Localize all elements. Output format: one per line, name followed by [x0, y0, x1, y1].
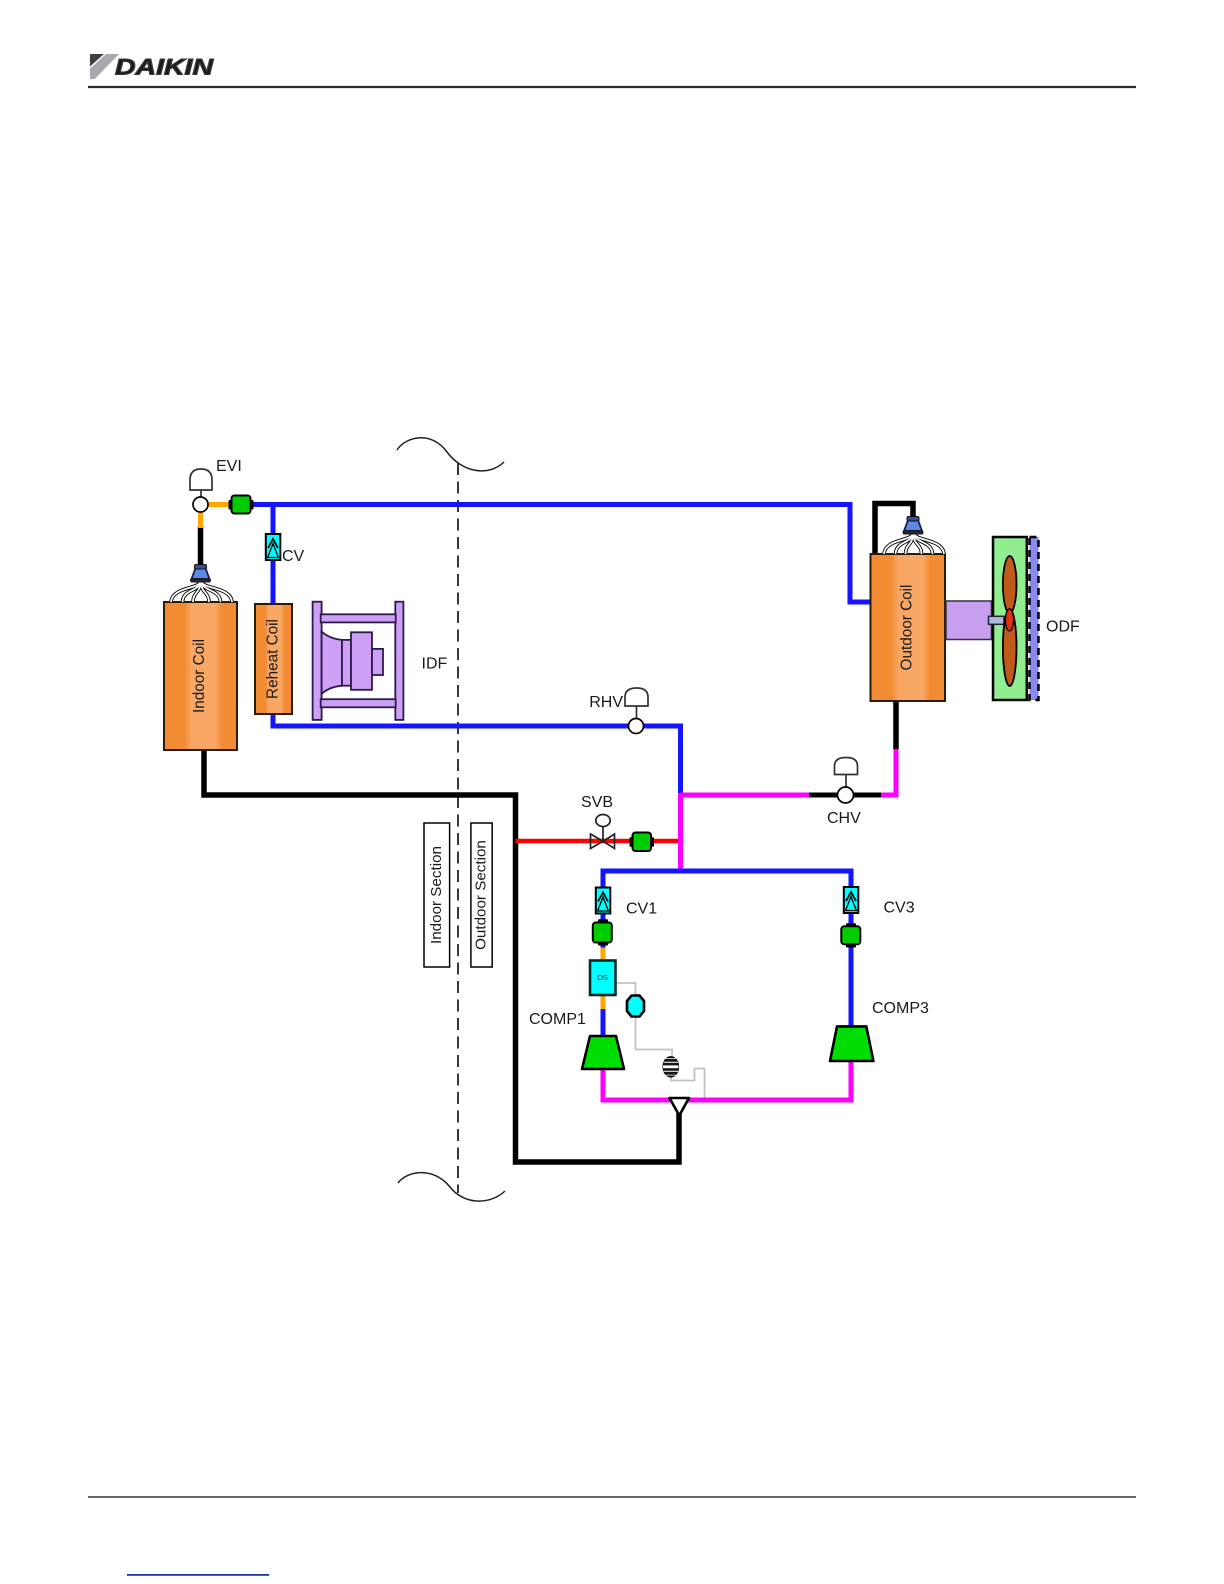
svg-text:DAIKIN: DAIKIN [115, 55, 214, 80]
svg-text:CV: CV [282, 548, 305, 565]
svg-text:Reheat Coil: Reheat Coil [265, 619, 282, 699]
svg-text:RHV: RHV [589, 694, 623, 711]
svg-text:Outdoor Coil: Outdoor Coil [899, 585, 916, 671]
svg-text:CHV: CHV [827, 810, 861, 827]
svg-text:COMP1: COMP1 [529, 1011, 586, 1028]
svg-text:Indoor Section: Indoor Section [428, 846, 445, 944]
svg-text:CV1: CV1 [626, 901, 657, 918]
svg-text:OS: OS [597, 973, 608, 982]
svg-text:Outdoor Section: Outdoor Section [473, 840, 490, 950]
svg-text:EVI: EVI [216, 458, 242, 475]
svg-text:ODF: ODF [1046, 619, 1080, 636]
svg-text:Indoor Coil: Indoor Coil [191, 639, 208, 713]
svg-text:COMP3: COMP3 [872, 1000, 929, 1017]
svg-text:IDF: IDF [422, 656, 448, 673]
svg-text:SVB: SVB [581, 794, 613, 811]
svg-text:CV3: CV3 [884, 900, 915, 917]
